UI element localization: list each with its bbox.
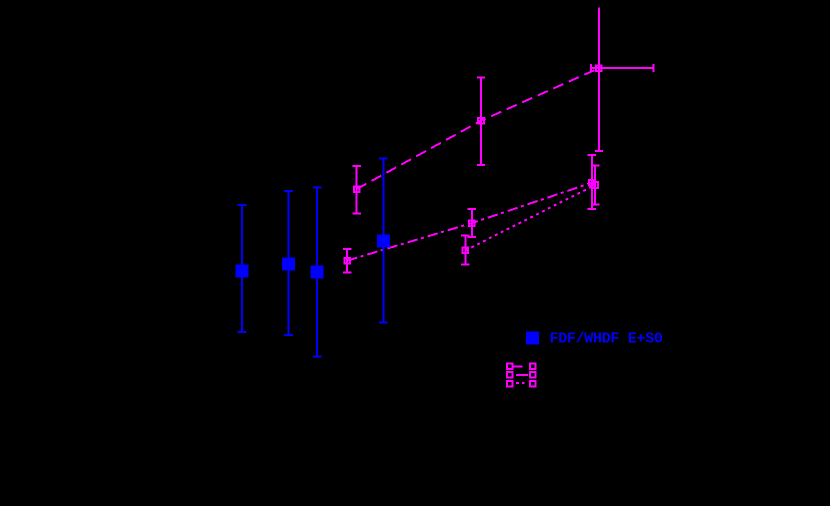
svg-text:FDF/WHDF E+S0: FDF/WHDF E+S0 bbox=[550, 331, 663, 348]
magenta dash-dot-series point 2 open square bbox=[469, 220, 475, 226]
legend dotted row left open square bbox=[507, 381, 513, 387]
blue square point 1 bbox=[236, 265, 249, 278]
blue square point 4 bbox=[377, 234, 390, 247]
magenta dotted-series point 1 error bar bbox=[461, 236, 469, 265]
legend dash-dot row line sample bbox=[516, 374, 528, 376]
magenta dash-dot-series point 3 error bar bbox=[588, 155, 596, 209]
magenta dashed-series point 3 horizontal error bar bbox=[591, 64, 653, 72]
dash-dot magenta line through middle series bbox=[347, 183, 592, 261]
blue square point 2 bbox=[282, 258, 295, 271]
magenta dashed-series point 3 open square bbox=[596, 65, 602, 71]
legend dashed row line sample bbox=[513, 365, 523, 367]
dashed magenta line through upper series bbox=[357, 68, 599, 189]
dotted magenta line through lower series bbox=[465, 185, 595, 250]
magenta dotted-series point 1 open square bbox=[463, 248, 469, 254]
legend dash-dot row right open square bbox=[530, 372, 536, 378]
magenta dash-dot-series point 3 open square bbox=[589, 180, 595, 186]
magenta dash-dot-series point 2 error bar bbox=[468, 209, 476, 237]
legend dashed row left open square bbox=[507, 363, 513, 369]
legend dotted row dots sample bbox=[516, 382, 525, 384]
legend dashed row right open square bbox=[530, 363, 536, 369]
blue error bar point 3 bbox=[313, 188, 322, 357]
magenta dash-dot-series point 1 open square bbox=[344, 258, 350, 264]
legend dash-dot row left open square bbox=[507, 372, 513, 378]
legend blue square bbox=[526, 332, 539, 345]
magenta dotted-series point 2 error bar bbox=[591, 166, 599, 205]
magenta dashed-series point 1 error bar bbox=[353, 166, 361, 214]
magenta dash-dot-series point 1 error bar bbox=[343, 249, 351, 272]
blue error bar point 1 bbox=[238, 205, 247, 332]
magenta dashed-series point 3 vertical error bar bbox=[595, 8, 603, 151]
magenta dotted-series point 2 open square bbox=[592, 182, 598, 188]
blue square point 3 bbox=[311, 266, 324, 279]
legend dotted row right open square bbox=[530, 381, 536, 387]
magenta dashed-series point 2 open square bbox=[478, 118, 484, 124]
magenta dashed-series point 2 error bar bbox=[477, 78, 485, 166]
magenta dashed-series point 1 open square bbox=[354, 186, 360, 192]
blue error bar point 2 bbox=[284, 191, 293, 335]
blue error bar point 4 bbox=[379, 158, 388, 322]
